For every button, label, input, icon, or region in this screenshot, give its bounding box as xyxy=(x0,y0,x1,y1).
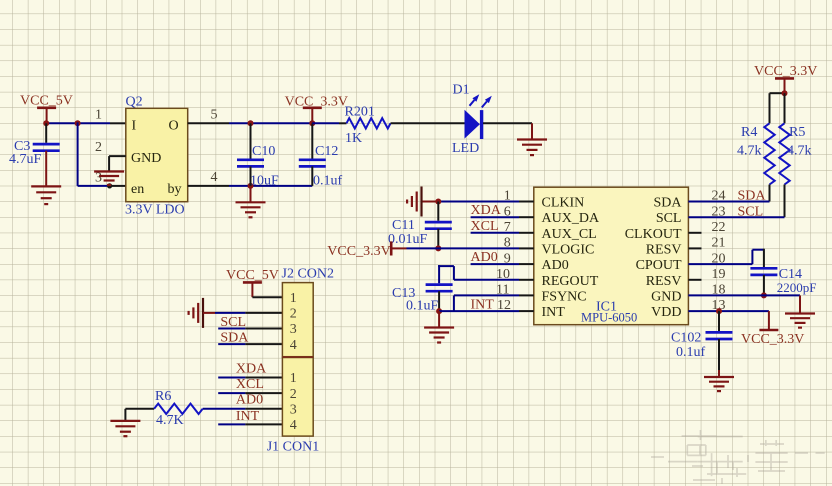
svg-text:J1 CON1: J1 CON1 xyxy=(267,440,320,455)
wire xyxy=(752,249,764,251)
svg-text:INT: INT xyxy=(542,305,566,320)
svg-text:1K: 1K xyxy=(345,131,362,146)
ground xyxy=(94,172,124,186)
svg-text:4.7K: 4.7K xyxy=(156,413,184,428)
connector J2 CON2 body xyxy=(282,283,313,357)
svg-text:GND: GND xyxy=(651,289,681,304)
svg-text:0.1uF: 0.1uF xyxy=(406,299,439,314)
svg-text:CLKOUT: CLKOUT xyxy=(625,227,682,242)
capacitor C14 lead xyxy=(763,275,765,296)
node junction xyxy=(309,120,315,126)
ground xyxy=(236,202,266,217)
node junction xyxy=(761,292,767,298)
svg-text:Q2: Q2 xyxy=(126,95,143,110)
wire SDA xyxy=(688,201,769,203)
svg-text:C102: C102 xyxy=(671,331,701,346)
svg-text:2: 2 xyxy=(95,140,102,155)
wire SCL xyxy=(688,216,784,218)
svg-text:R5: R5 xyxy=(789,125,805,140)
capacitor C12 lead xyxy=(311,123,313,158)
power VCC_3.3V down xyxy=(759,311,778,330)
wire xyxy=(108,156,110,171)
capacitor C13 lead xyxy=(438,291,440,311)
wire xyxy=(125,408,154,410)
power VCC_3.3V xyxy=(775,78,794,93)
svg-text:XDA: XDA xyxy=(471,203,502,218)
wire GND xyxy=(688,294,800,296)
diode D1 LED xyxy=(465,94,492,139)
svg-text:XDA: XDA xyxy=(236,361,267,376)
capacitor C11 lead xyxy=(437,202,439,221)
wire xyxy=(215,312,245,314)
svg-text:3: 3 xyxy=(95,171,102,186)
svg-text:I: I xyxy=(132,119,137,134)
wire CPOUT xyxy=(688,263,752,265)
capacitor C14 lead xyxy=(763,249,765,267)
svg-text:SCL: SCL xyxy=(738,204,764,219)
wire xyxy=(471,216,519,218)
svg-text:AD0: AD0 xyxy=(471,250,498,265)
svg-text:VCC_3.3V: VCC_3.3V xyxy=(327,244,390,259)
svg-text:RESV: RESV xyxy=(646,274,682,289)
svg-text:2200pF: 2200pF xyxy=(777,280,817,295)
node junction xyxy=(435,199,441,205)
wire pin stub xyxy=(519,294,534,296)
svg-text:INT: INT xyxy=(236,409,260,424)
wire xyxy=(78,185,110,187)
svg-text:AUX_DA: AUX_DA xyxy=(542,211,600,226)
resistor R6 xyxy=(154,404,203,414)
capacitor C12 lead xyxy=(311,166,313,186)
wire xyxy=(229,185,312,187)
wire xyxy=(471,232,519,234)
wire xyxy=(454,294,519,296)
wire pin stub xyxy=(519,310,534,312)
wire pin stub xyxy=(519,216,534,218)
wire pin stub xyxy=(245,343,282,345)
node junction xyxy=(107,183,112,188)
wire pin stub xyxy=(245,392,282,394)
svg-text:22: 22 xyxy=(712,220,726,235)
wire pin stub xyxy=(245,423,282,425)
capacitor C3 lead xyxy=(45,123,47,143)
svg-text:4: 4 xyxy=(290,418,297,433)
svg-text:CLKIN: CLKIN xyxy=(542,196,585,211)
node junction xyxy=(43,120,49,126)
regulator Q2 body xyxy=(126,108,188,201)
wire xyxy=(391,122,465,124)
svg-text:1: 1 xyxy=(95,108,102,123)
svg-text:2: 2 xyxy=(290,307,297,322)
power VCC_3.3V xyxy=(391,241,406,255)
wire pin stub xyxy=(110,122,126,124)
svg-text:XCL: XCL xyxy=(471,219,499,234)
svg-text:CPOUT: CPOUT xyxy=(636,258,682,273)
svg-text:by: by xyxy=(168,182,182,197)
wire pin stub xyxy=(245,377,282,379)
svg-text:XCL: XCL xyxy=(236,377,264,392)
svg-text:VCC_5V: VCC_5V xyxy=(226,268,279,283)
svg-text:5: 5 xyxy=(211,108,218,123)
resistor R4 lead xyxy=(769,93,771,123)
connector separator xyxy=(282,356,313,358)
ground xyxy=(517,140,547,156)
svg-text:en: en xyxy=(131,182,144,197)
wire xyxy=(46,122,110,124)
wire xyxy=(124,409,126,421)
wire xyxy=(218,392,245,394)
svg-text:C11: C11 xyxy=(392,218,415,233)
resistor R5 xyxy=(779,123,789,184)
svg-text:RESV: RESV xyxy=(646,242,682,257)
svg-text:C10: C10 xyxy=(252,144,275,159)
wire pin stub xyxy=(110,185,126,187)
resistor R201 xyxy=(347,118,391,128)
wire xyxy=(438,201,519,203)
svg-text:VCC_3.3V: VCC_3.3V xyxy=(754,64,817,79)
svg-text:0.01uF: 0.01uF xyxy=(388,232,428,247)
svg-text:0.1uf: 0.1uf xyxy=(676,345,706,360)
wire xyxy=(471,263,519,265)
svg-text:VLOGIC: VLOGIC xyxy=(542,242,595,257)
wire pin stub xyxy=(688,247,701,249)
IC U1 MPU-6050 body xyxy=(534,187,689,325)
wire xyxy=(203,312,215,314)
ground xyxy=(785,314,815,328)
resistor R5 lead xyxy=(784,185,786,218)
capacitor C102 xyxy=(706,332,733,339)
wire pin stub xyxy=(245,312,282,314)
wire xyxy=(483,122,532,124)
wire xyxy=(718,370,720,377)
svg-text:J2 CON2: J2 CON2 xyxy=(282,267,335,282)
capacitor C102 lead xyxy=(718,311,720,331)
svg-text:4.7k: 4.7k xyxy=(787,144,812,159)
svg-text:4: 4 xyxy=(211,170,218,185)
capacitor C10 lead xyxy=(250,123,252,158)
wire pin stub xyxy=(519,279,534,281)
power VCC_5V xyxy=(243,282,262,297)
svg-text:21: 21 xyxy=(712,236,726,251)
wire pin 4 stub xyxy=(188,185,229,187)
wire xyxy=(203,408,246,410)
svg-text:1: 1 xyxy=(290,371,297,386)
wire xyxy=(438,311,440,327)
svg-text:2: 2 xyxy=(290,387,297,402)
svg-text:3.3V LDO: 3.3V LDO xyxy=(125,203,185,218)
node junction xyxy=(248,120,254,126)
wire xyxy=(799,295,801,313)
wire xyxy=(218,343,245,345)
wire pin stub xyxy=(245,328,282,330)
wire xyxy=(218,328,245,330)
wire xyxy=(45,151,47,187)
svg-text:3: 3 xyxy=(290,403,297,418)
svg-text:4.7uF: 4.7uF xyxy=(9,152,42,167)
wire xyxy=(438,265,454,267)
connector J1 CON1 body xyxy=(282,358,313,437)
capacitor C13 lead xyxy=(438,265,440,283)
power VCC_3.3V xyxy=(303,108,322,124)
svg-text:AD0: AD0 xyxy=(542,258,569,273)
node junction xyxy=(436,308,442,314)
wire pin stub xyxy=(688,279,701,281)
wire xyxy=(229,122,312,124)
svg-text:C12: C12 xyxy=(315,144,338,159)
ground xyxy=(704,377,734,391)
wire pin 5 stub xyxy=(188,122,229,124)
svg-text:SDA: SDA xyxy=(738,189,767,204)
capacitor C13 xyxy=(426,285,453,292)
capacitor C102 lead xyxy=(718,339,720,370)
svg-text:SDA: SDA xyxy=(653,196,682,211)
svg-text:SCL: SCL xyxy=(656,211,682,226)
svg-text:O: O xyxy=(169,119,179,134)
wire xyxy=(250,186,252,202)
wire xyxy=(453,266,455,280)
svg-text:INT: INT xyxy=(471,297,495,312)
wire pin stub xyxy=(519,201,534,203)
wire xyxy=(407,247,520,249)
ground xyxy=(110,421,140,436)
resistor R4 lead xyxy=(769,185,771,202)
wire xyxy=(252,296,282,298)
wire pin stub xyxy=(688,232,701,234)
wire pin stub xyxy=(519,247,534,249)
capacitor C11 xyxy=(425,222,452,229)
svg-text:FSYNC: FSYNC xyxy=(542,289,587,304)
wire VDD xyxy=(688,310,769,312)
svg-text:R6: R6 xyxy=(155,389,171,404)
capacitor C11 lead xyxy=(437,229,439,249)
wire xyxy=(751,250,753,264)
wire xyxy=(454,279,519,281)
ground xyxy=(31,186,61,204)
svg-text:AD0: AD0 xyxy=(236,393,263,408)
ground xyxy=(189,298,203,328)
svg-text:R201: R201 xyxy=(345,105,375,120)
capacitor C3 xyxy=(33,144,60,151)
node junction xyxy=(75,120,81,126)
capacitor C10 lead xyxy=(250,166,252,186)
node junction xyxy=(716,308,722,314)
wire xyxy=(77,122,79,186)
svg-text:4.7k: 4.7k xyxy=(737,144,762,159)
svg-text:3: 3 xyxy=(290,322,297,337)
svg-text:4: 4 xyxy=(290,338,297,353)
svg-text:D1: D1 xyxy=(453,83,470,98)
svg-text:19: 19 xyxy=(712,267,726,282)
wire xyxy=(312,122,339,124)
wire xyxy=(422,201,439,203)
svg-text:VDD: VDD xyxy=(651,305,681,320)
ground xyxy=(424,328,454,343)
capacitor C10 xyxy=(237,160,264,167)
wire xyxy=(218,423,245,425)
node junction xyxy=(248,183,254,189)
wire xyxy=(453,295,455,311)
resistor R5 lead xyxy=(784,93,786,123)
power VCC_5V xyxy=(37,108,56,124)
svg-text:MPU-6050: MPU-6050 xyxy=(581,311,637,325)
capacitor C12 xyxy=(299,160,326,167)
svg-text:LED: LED xyxy=(452,141,479,156)
resistor R4 xyxy=(764,123,774,184)
wire xyxy=(531,123,533,139)
wire xyxy=(439,310,519,312)
ground xyxy=(407,187,421,217)
node junction xyxy=(435,245,441,251)
svg-text:AUX_CL: AUX_CL xyxy=(542,227,597,242)
node junction xyxy=(782,90,788,96)
svg-text:1: 1 xyxy=(290,291,297,306)
svg-text:REGOUT: REGOUT xyxy=(542,274,599,289)
svg-text:GND: GND xyxy=(131,151,161,166)
svg-text:10uF: 10uF xyxy=(250,174,279,189)
wire pin stub xyxy=(519,232,534,234)
svg-text:VCC_5V: VCC_5V xyxy=(20,94,73,109)
svg-text:VCC_3.3V: VCC_3.3V xyxy=(741,332,804,347)
wire pin stub xyxy=(245,408,282,410)
wire xyxy=(770,92,785,94)
wire xyxy=(218,377,245,379)
svg-text:R4: R4 xyxy=(741,125,757,140)
resistor R201 lead xyxy=(339,122,347,124)
watermark xyxy=(651,430,825,484)
capacitor C14 xyxy=(750,268,777,275)
wire pin 2 xyxy=(109,155,126,157)
svg-text:0.1uf: 0.1uf xyxy=(313,174,343,189)
wire pin stub xyxy=(519,263,534,265)
